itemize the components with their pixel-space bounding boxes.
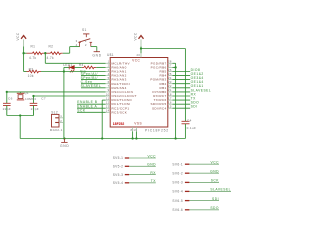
svg-text:SV5-2: SV5-2	[113, 165, 124, 169]
svg-text:0.1uF: 0.1uF	[187, 126, 197, 130]
svg-text:28: 28	[168, 60, 172, 64]
svg-text:R2: R2	[49, 45, 54, 49]
svg-text:LED1: LED1	[63, 63, 72, 67]
wire net right row 4	[173, 79, 191, 81]
svg-text:SLAVESEL: SLAVESEL	[81, 84, 102, 88]
net label SLAVESEL	[81, 84, 102, 88]
svg-text:SDI: SDI	[212, 197, 219, 201]
net label GND (SV5-2)	[147, 163, 156, 167]
svg-text:SV6-3: SV6-3	[172, 181, 183, 185]
pin 14 RC3/SCK	[106, 109, 128, 115]
svg-text:C7: C7	[41, 96, 46, 100]
svg-text:RC3/SCK: RC3/SCK	[112, 110, 128, 114]
svg-text:12: 12	[106, 101, 110, 105]
svg-text:1: 1	[108, 60, 110, 64]
svg-text:GND: GND	[92, 53, 101, 57]
wire net right row 3	[173, 75, 191, 77]
svg-text:R4: R4	[79, 63, 84, 67]
pin header SV6-6	[172, 208, 189, 212]
wire R3 to pin RA1	[41, 71, 106, 73]
net label OE1&amp;1	[191, 84, 204, 88]
net label VCC (SV5-1)	[148, 154, 157, 158]
net label ENABLE A	[77, 104, 97, 108]
pin 1 MCLR/THV	[106, 60, 131, 66]
wire net GND (SV5-2)	[129, 165, 156, 167]
svg-text:VCC: VCC	[132, 59, 140, 63]
net label DIO8	[191, 68, 201, 72]
svg-text:VCC: VCC	[148, 154, 157, 158]
wire RC0 to ground rail	[102, 100, 105, 138]
svg-text:SV6-6: SV6-6	[172, 208, 183, 212]
wire net right row 8	[173, 95, 191, 97]
wire net ENABLE A	[77, 107, 106, 109]
value label 10MHz	[25, 97, 37, 101]
svg-text:SCK: SCK	[211, 179, 220, 183]
svg-text:R1: R1	[31, 45, 36, 49]
svg-text:SCK: SCK	[77, 108, 86, 112]
pin 22 RB1	[160, 84, 173, 90]
svg-text:10: 10	[106, 92, 110, 96]
svg-text:SLAVESEL: SLAVESEL	[210, 188, 231, 192]
net label TX (SV5-4)	[151, 179, 157, 183]
net label ENABLE B	[77, 100, 97, 104]
svg-text:GND: GND	[147, 163, 156, 167]
svg-text:18: 18	[168, 92, 172, 96]
net label SPen(A)/	[81, 72, 98, 76]
net label OE1&amp;2	[191, 72, 204, 76]
wire net VCC (SV6-1)	[189, 163, 219, 165]
svg-text:4.7k: 4.7k	[29, 56, 36, 60]
wire VCC2 to C4	[141, 49, 185, 122]
node MCLR junction	[44, 52, 46, 54]
net label SDI (SV6-5)	[212, 197, 219, 201]
pin 8 VSS	[130, 127, 132, 132]
net label SCK	[77, 108, 86, 112]
power symbol VCC (left)	[16, 32, 26, 40]
wire R2 to switch	[63, 47, 80, 54]
pin 13 RC2/CCP1	[106, 105, 130, 111]
svg-text:2: 2	[85, 43, 87, 47]
capacitor C6	[3, 96, 13, 115]
svg-text:SV6-1: SV6-1	[172, 162, 183, 166]
pin number S1.1	[85, 39, 87, 43]
pin header SV6-4	[172, 190, 189, 194]
node gnd rail / GND symbol	[63, 137, 65, 139]
svg-text:22pF: 22pF	[3, 107, 11, 111]
pin 28 PGD/RB7	[151, 60, 173, 66]
wire net C-Sen (row 5)	[81, 83, 106, 85]
net label VCC (SV6-1)	[211, 161, 220, 165]
svg-text:MA02-1: MA02-1	[50, 128, 63, 132]
wire main ground rail	[20, 138, 185, 140]
LED LED1	[63, 63, 74, 73]
wire VCC1 stem	[23, 39, 25, 53]
wire OSC2 net	[32, 95, 105, 103]
pin header SV5-4	[113, 181, 130, 185]
svg-text:SV6-5: SV6-5	[172, 199, 183, 203]
pin header SV5-2	[113, 165, 130, 169]
pin 2 RA0/AN0	[106, 64, 127, 70]
svg-text:SDI/RC4: SDI/RC4	[152, 106, 166, 110]
resistor R3	[27, 67, 42, 78]
net label OE1&amp;4	[191, 80, 204, 84]
wire vertical LED-SL2-GND	[63, 67, 65, 138]
pin SL2.2	[59, 119, 64, 123]
wire net right row 9	[173, 99, 191, 101]
crystal Q1	[17, 91, 29, 100]
svg-text:22: 22	[168, 84, 172, 88]
svg-text:8: 8	[130, 128, 132, 132]
net label SCK (SV6-3)	[211, 179, 220, 183]
pin 4 RA2/AN2	[106, 72, 127, 78]
svg-text:S1: S1	[82, 28, 87, 32]
svg-text:4: 4	[108, 72, 110, 76]
node crystal rail center	[19, 114, 21, 116]
svg-text:C4: C4	[187, 119, 192, 123]
pin 10 OSC2/CLKOUT	[106, 92, 137, 98]
wire RB7 to ground vertical	[173, 62, 176, 64]
net label C-Sen	[81, 80, 93, 84]
pin 15 SDI/RC4	[152, 105, 172, 111]
wire net SDI (SV6-5)	[189, 200, 219, 202]
ground symbol (switch)	[92, 51, 101, 58]
pin number S1.4	[76, 43, 78, 47]
svg-text:Q1: Q1	[24, 91, 29, 95]
svg-text:2: 2	[60, 119, 62, 123]
connector SL2	[50, 110, 63, 132]
svg-text:7: 7	[108, 84, 110, 88]
pin 12 RC1/T1OSI	[106, 101, 131, 107]
wire net SCK	[77, 111, 106, 113]
svg-text:PIC18F252: PIC18F252	[145, 128, 169, 132]
node junction VCC rail / R1	[22, 52, 24, 54]
wire OSC1 net	[6, 91, 106, 103]
svg-text:15: 15	[168, 105, 172, 109]
node gnd rail / RC0 vertical	[101, 137, 103, 139]
svg-text:GND: GND	[210, 170, 219, 174]
svg-text:C6: C6	[8, 96, 13, 100]
svg-text:16: 16	[168, 101, 172, 105]
pin 5 RA3/AN3	[106, 76, 127, 82]
capacitor C4	[182, 119, 197, 131]
svg-text:GND: GND	[60, 144, 69, 148]
wire R1 to node	[44, 52, 46, 54]
svg-text:TX: TX	[151, 179, 157, 183]
resistor R1	[27, 45, 45, 60]
pin number S1.2	[85, 43, 87, 47]
wire net right row 6	[173, 87, 191, 89]
wire net SPen(B)/ (row 4)	[81, 79, 106, 81]
pin header SV6-5	[172, 199, 189, 203]
wire net right row 10	[173, 103, 191, 105]
wire VCC rail down to R3 row	[24, 53, 27, 71]
svg-text:20: 20	[136, 53, 140, 57]
wire net SLAVESEL (row 6)	[81, 87, 106, 89]
pin SL2.1	[59, 114, 64, 118]
wire crystal ground rail	[7, 115, 34, 117]
svg-text:18F252: 18F252	[113, 122, 125, 126]
net label RX	[191, 92, 197, 96]
svg-text:25: 25	[168, 72, 172, 76]
svg-text:13: 13	[106, 105, 110, 109]
pin header SV6-1	[172, 162, 189, 166]
wire net GND (SV6-2)	[189, 172, 219, 174]
wire net ENABLE B	[77, 103, 106, 105]
svg-text:4.7k: 4.7k	[47, 56, 54, 60]
pin 17 TX/RC6	[154, 96, 173, 102]
pin header SV5-3	[113, 173, 130, 177]
ground symbol (main)	[60, 139, 69, 149]
svg-text:VCC: VCC	[16, 32, 20, 40]
svg-text:U$1: U$1	[107, 53, 114, 57]
wire net right row 2	[173, 71, 191, 73]
wire net SLAVESEL (SV6-4)	[189, 190, 231, 192]
svg-text:SV6-4: SV6-4	[172, 190, 183, 194]
svg-text:21: 21	[168, 88, 172, 92]
pin 9 OSC1/CLKIN	[106, 88, 134, 94]
svg-text:10MHz: 10MHz	[25, 97, 37, 101]
wire net TX (SV5-4)	[129, 182, 156, 184]
net label SPen(B)/	[81, 76, 98, 80]
svg-text:SL2: SL2	[51, 110, 58, 114]
svg-text:SV6-2: SV6-2	[172, 171, 183, 175]
wire net SDO (SV6-6)	[189, 209, 219, 211]
wire MCLR net	[45, 53, 105, 63]
svg-text:4: 4	[76, 43, 78, 47]
svg-text:26: 26	[168, 68, 172, 72]
wire net right row 5	[173, 83, 191, 85]
pin 27 PGC/RB6	[151, 64, 173, 70]
resistor R4	[79, 63, 96, 69]
svg-text:SV5-3: SV5-3	[113, 173, 124, 177]
wire VSS pin8 to rail	[131, 132, 133, 140]
node RB6 junction	[174, 66, 176, 68]
net label GND (SV6-2)	[210, 170, 219, 174]
svg-text:SDO: SDO	[210, 206, 219, 210]
pin 25 RB4	[160, 72, 173, 78]
net label SLAVESEL	[191, 88, 212, 92]
pin header SV5-1	[113, 156, 130, 160]
pin 21 INT/RB0	[152, 88, 172, 94]
net label SDI	[191, 105, 198, 109]
svg-text:5: 5	[108, 76, 110, 80]
svg-text:R3: R3	[29, 67, 34, 71]
svg-text:10k: 10k	[28, 74, 34, 78]
net label SDO (SV6-6)	[210, 206, 219, 210]
pin 3 RA1/AN1	[106, 68, 127, 74]
wire VCC1 to R1	[24, 52, 27, 54]
pin number S1.3	[76, 39, 78, 43]
pin 6 RA4/T0CKI	[106, 80, 131, 86]
pin 26 RB5	[160, 68, 173, 74]
svg-text:27: 27	[168, 64, 172, 68]
net label SDO	[191, 101, 200, 105]
pin 19 VSS	[133, 127, 137, 132]
power symbol VCC (IC)	[134, 32, 144, 40]
pin 24 PGM/RB3	[150, 76, 172, 82]
wire net VCC (SV5-1)	[129, 157, 156, 159]
svg-text:14: 14	[106, 109, 110, 113]
svg-text:VCC: VCC	[134, 32, 138, 40]
pin header SV6-3	[172, 181, 189, 185]
pin 7 RA5/AN4	[106, 84, 127, 90]
net label RX (SV5-3)	[150, 171, 156, 175]
pin 11 RC0/T1OSO	[106, 96, 133, 102]
resistor R2	[47, 45, 63, 60]
wire ground vertical right	[175, 63, 177, 138]
op-amp U$1 IC body	[107, 53, 168, 127]
net label SLAVESEL (SV6-4)	[210, 188, 231, 192]
pin 18 RX/RC7	[153, 92, 172, 98]
value label 18F252	[113, 122, 125, 126]
svg-text:3: 3	[108, 68, 110, 72]
wire net RX (SV5-3)	[129, 174, 156, 176]
node right vertical / rail	[174, 137, 176, 139]
svg-text:11: 11	[106, 96, 110, 100]
net label Vin	[80, 69, 86, 73]
value label PIC18F252	[145, 128, 169, 132]
svg-text:6: 6	[108, 80, 110, 84]
wire VCC2 stem	[140, 39, 142, 53]
svg-text:17: 17	[168, 96, 172, 100]
svg-text:9: 9	[108, 88, 110, 92]
pin 23 RB2	[160, 80, 173, 86]
pin header SV6-2	[172, 171, 189, 175]
svg-text:RX: RX	[150, 171, 156, 175]
pin 16 SDO/RC5	[151, 101, 173, 107]
svg-text:24: 24	[168, 76, 172, 80]
wire RB6 to vertical	[173, 66, 176, 68]
svg-text:1: 1	[60, 114, 62, 118]
pin 20 VCC (top)	[136, 53, 141, 58]
wire LED to R4	[75, 66, 82, 68]
wire C4 to ground rail	[184, 124, 186, 139]
wire crystal rail to main ground rail	[19, 116, 21, 139]
wire net right row 7	[173, 91, 191, 93]
net label OE3&amp;4	[191, 76, 204, 80]
wire net SCK (SV6-3)	[189, 181, 219, 183]
wire net SPen(A)/ (row 3)	[81, 75, 106, 77]
net label TX	[191, 97, 197, 101]
wire net right row 11	[173, 107, 191, 109]
wire VSS pin19 to rail	[135, 132, 137, 140]
node junction LED/R3 vertical	[63, 70, 65, 72]
svg-text:2: 2	[108, 64, 110, 68]
wire switch to GND	[91, 47, 97, 51]
svg-text:23: 23	[168, 80, 172, 84]
svg-text:VCC: VCC	[211, 161, 220, 165]
svg-text:SDI: SDI	[191, 105, 198, 109]
node VCC2 branch	[140, 47, 142, 49]
svg-text:22pF: 22pF	[31, 107, 39, 111]
capacitor C7	[30, 96, 46, 115]
wire R4 to pin RA0	[96, 66, 105, 68]
svg-text:SV5-1: SV5-1	[113, 156, 124, 160]
svg-text:VSS: VSS	[134, 122, 142, 126]
switch S1	[78, 28, 92, 46]
wire LED left to vertical	[64, 66, 69, 68]
svg-text:SV5-4: SV5-4	[113, 181, 124, 185]
